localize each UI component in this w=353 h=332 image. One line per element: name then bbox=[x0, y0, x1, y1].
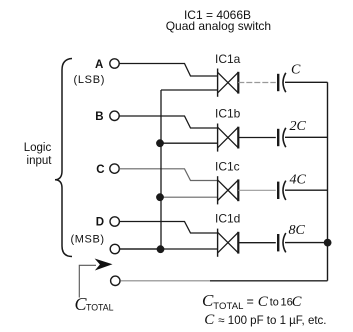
svg-text:C: C bbox=[202, 291, 214, 310]
junction dot rail 8C bbox=[324, 239, 332, 247]
junction dot bus common bbox=[157, 245, 165, 253]
svg-text:8C: 8C bbox=[289, 223, 306, 238]
svg-text:IC1d: IC1d bbox=[215, 212, 240, 226]
terminal D bbox=[96, 217, 120, 229]
terminal A bbox=[95, 59, 119, 71]
svg-text:IC1a: IC1a bbox=[215, 52, 241, 66]
svg-text:≈ 100 pF to 1 µF, etc.: ≈ 100 pF to 1 µF, etc. bbox=[218, 315, 326, 327]
wire cap 4C to rail bbox=[285, 189, 328, 191]
svg-text:C: C bbox=[291, 63, 301, 78]
arrow C_TOTAL pointer bbox=[79, 259, 112, 298]
wire cap C to rail bbox=[285, 81, 328, 83]
wire bus to IC1a signal bbox=[161, 89, 217, 91]
terminal C_TOTAL bottom bbox=[111, 276, 120, 285]
wire B control bbox=[119, 116, 217, 128]
wire cap 8C to rail bbox=[285, 242, 328, 244]
svg-text:TOTAL: TOTAL bbox=[86, 303, 114, 313]
svg-text:2C: 2C bbox=[290, 119, 307, 134]
wire analog bus vertical bbox=[160, 90, 162, 249]
wire IC1b output bbox=[238, 137, 275, 139]
switch IC1b bbox=[215, 107, 241, 152]
svg-text:C: C bbox=[258, 294, 269, 310]
terminal B bbox=[95, 111, 119, 123]
svg-text:to: to bbox=[270, 297, 279, 309]
wire bus to IC1c signal bbox=[160, 196, 217, 198]
wire IC1c output bbox=[238, 189, 275, 191]
capacitor 2C bbox=[278, 119, 306, 147]
label C_TOTAL bbox=[75, 294, 114, 314]
wire bottom return bbox=[121, 280, 211, 282]
wire C control bbox=[119, 169, 217, 181]
wire right rail bbox=[327, 82, 329, 280]
svg-text:=: = bbox=[247, 294, 254, 308]
svg-text:C: C bbox=[292, 294, 302, 310]
svg-text:4C: 4C bbox=[290, 173, 307, 188]
terminal C bbox=[96, 164, 119, 176]
wire common rail terminal bbox=[120, 248, 161, 250]
wire cap 2C to rail bbox=[285, 136, 328, 138]
svg-text:Logic: Logic bbox=[24, 142, 52, 154]
svg-text:Quad analog switch: Quad analog switch bbox=[166, 19, 271, 33]
svg-text:(MSB): (MSB) bbox=[71, 233, 105, 245]
svg-text:D: D bbox=[96, 217, 104, 229]
formula line 1 bbox=[202, 291, 302, 312]
terminal common top bbox=[110, 244, 119, 253]
switch IC1c bbox=[215, 159, 240, 204]
junction dot bus B bbox=[156, 139, 164, 147]
wire IC1d output bbox=[238, 242, 275, 244]
wire D control bbox=[120, 222, 218, 234]
svg-text:TOTAL: TOTAL bbox=[213, 301, 243, 312]
svg-text:input: input bbox=[27, 155, 53, 167]
wire bus to IC1b signal bbox=[160, 142, 217, 144]
junction dot bus C bbox=[156, 193, 164, 201]
svg-text:A: A bbox=[95, 59, 103, 71]
svg-text:C: C bbox=[204, 312, 215, 328]
capacitor C bbox=[278, 63, 301, 93]
capacitor 4C bbox=[278, 173, 306, 201]
op switch IC1a bbox=[215, 52, 241, 97]
svg-text:C: C bbox=[96, 164, 104, 176]
svg-text:IC1b: IC1b bbox=[215, 107, 241, 121]
wire IC1a output bbox=[238, 82, 275, 84]
switch IC1d bbox=[215, 212, 240, 257]
svg-text:B: B bbox=[95, 111, 103, 123]
brace logic input bbox=[55, 59, 72, 257]
svg-text:(LSB): (LSB) bbox=[73, 74, 105, 86]
formula line 2 bbox=[204, 312, 326, 328]
svg-text:IC1c: IC1c bbox=[215, 159, 240, 173]
capacitor 8C bbox=[278, 223, 305, 252]
wire common rail to IC1d signal bbox=[120, 248, 217, 250]
wire A control bbox=[119, 64, 217, 77]
